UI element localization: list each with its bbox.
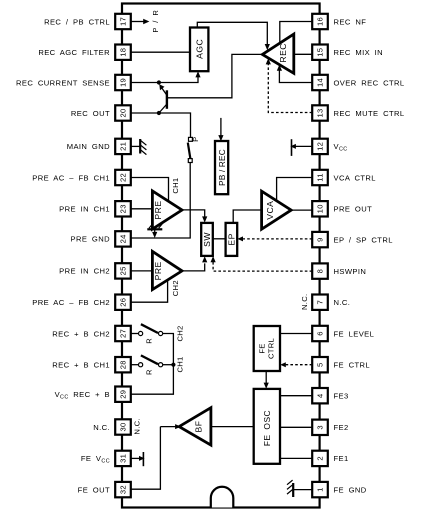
svg-text:REC MUTE CTRL: REC MUTE CTRL	[334, 109, 405, 118]
transistor Q1	[166, 90, 168, 109]
svg-text:R: R	[145, 369, 154, 375]
svg-text:MAIN GND: MAIN GND	[67, 142, 110, 151]
wire pin18 to AGC	[131, 51, 190, 53]
svg-text:REC + B CH1: REC + B CH1	[52, 361, 110, 370]
svg-text:PRE OUT: PRE OUT	[334, 205, 373, 214]
svg-text:FE3: FE3	[334, 392, 349, 401]
node junction switch CH1	[171, 363, 175, 367]
svg-text:10: 10	[316, 204, 325, 213]
svg-text:CH2: CH2	[176, 325, 185, 341]
wire switches to pin29	[131, 334, 173, 395]
svg-text:PRE AC – FB CH2: PRE AC – FB CH2	[32, 298, 110, 307]
wire pin20 REC OUT	[131, 113, 191, 137]
wire pin32 FE OUT to BF output	[131, 427, 160, 490]
svg-text:CTRL: CTRL	[266, 338, 275, 359]
svg-text:PB / REC: PB / REC	[218, 149, 227, 186]
switch P (REC mute)	[189, 137, 193, 141]
svg-text:9: 9	[316, 237, 325, 242]
svg-text:15: 15	[316, 48, 325, 57]
node junction pin20/collector	[157, 111, 161, 115]
svg-text:PRE: PRE	[153, 200, 163, 219]
svg-text:23: 23	[119, 204, 128, 213]
pin labels right	[334, 17, 405, 494]
svg-text:BF: BF	[194, 421, 204, 433]
svg-text:20: 20	[119, 108, 128, 117]
wire REC out to Q1 base	[168, 54, 262, 97]
svg-text:REC / PB CTRL: REC / PB CTRL	[44, 17, 110, 26]
svg-text:13: 13	[316, 108, 325, 117]
svg-text:CH1: CH1	[176, 356, 185, 372]
svg-text:AGC: AGC	[194, 39, 204, 59]
svg-text:OVER REC CTRL: OVER REC CTRL	[334, 78, 405, 87]
wire PRE CH1 output to SW	[182, 210, 205, 219]
power FE Vcc rail (pin31)	[131, 457, 141, 459]
svg-text:FE2: FE2	[334, 423, 349, 432]
block PB/REC	[215, 141, 228, 194]
svg-text:2: 2	[316, 456, 325, 461]
svg-text:16: 16	[316, 17, 325, 26]
svg-text:PRE GND: PRE GND	[71, 235, 111, 244]
wire pin14 OVER REC CTRL	[279, 69, 312, 83]
wire pin5 FE CTRL (dashed)	[284, 364, 312, 366]
svg-text:VCA CTRL: VCA CTRL	[334, 173, 376, 182]
wire pin17 arrow to P/R	[131, 21, 144, 23]
svg-text:31: 31	[119, 454, 128, 463]
pin boxes left (17-32)	[115, 14, 131, 498]
wire switch P to PRE GND line	[131, 163, 190, 239]
block FE CTRL	[254, 326, 280, 371]
pin numbers left	[119, 17, 128, 494]
svg-text:7: 7	[316, 300, 325, 305]
svg-text:14: 14	[316, 78, 325, 87]
wire SW-EP connector	[213, 238, 226, 240]
svg-text:R: R	[145, 338, 154, 344]
wire pin6 FE LEVEL	[280, 333, 312, 335]
switch R CH2 (pin27)	[131, 333, 138, 335]
ground PRE GND (pin24)	[147, 228, 162, 230]
wire PRE CH2 output to SW bottom	[182, 263, 205, 271]
svg-text:6: 6	[316, 331, 325, 336]
svg-text:22: 22	[119, 173, 128, 182]
svg-text:REC CURRENT SENSE: REC CURRENT SENSE	[16, 78, 110, 87]
block AGC U1	[190, 28, 208, 72]
power Vcc rail (pin12)	[294, 145, 312, 147]
wire FE OSC to BF input	[211, 426, 254, 428]
svg-text:N.C.: N.C.	[133, 418, 142, 434]
wire pin3 FE2	[280, 426, 312, 428]
package notch (bottom center)	[211, 487, 234, 508]
op-amp PRE CH2	[152, 251, 182, 289]
svg-text:21: 21	[119, 142, 128, 151]
svg-text:17: 17	[119, 17, 128, 26]
svg-text:19: 19	[119, 78, 128, 87]
svg-text:5: 5	[316, 362, 325, 367]
block EP	[226, 223, 238, 256]
ground FE GND (pin1)	[293, 489, 312, 491]
svg-text:PRE AC – FB CH1: PRE AC – FB CH1	[32, 173, 110, 182]
svg-text:PRE: PRE	[153, 261, 163, 280]
svg-text:REC OUT: REC OUT	[71, 109, 110, 118]
svg-text:28: 28	[119, 360, 128, 369]
svg-text:FE: FE	[257, 343, 266, 353]
svg-text:PRE IN CH1: PRE IN CH1	[59, 205, 110, 214]
IC package outline	[122, 4, 320, 508]
svg-text:3: 3	[316, 425, 325, 430]
wire FE CTRL to FE OSC arrow	[265, 371, 267, 385]
pin numbers right	[316, 17, 325, 492]
svg-text:24: 24	[119, 234, 128, 243]
svg-text:CH2: CH2	[171, 280, 180, 296]
ground MAIN GND (pin21)	[131, 145, 140, 147]
svg-text:N.C.: N.C.	[334, 298, 351, 307]
op-amp PRE CH1	[152, 191, 182, 229]
svg-text:REC AGC FILTER: REC AGC FILTER	[38, 48, 110, 57]
switch R CH1 (pin28)	[131, 364, 138, 366]
op-amp BF	[179, 408, 211, 445]
wire pin13 REC MUTE CTRL (dashed)	[268, 62, 312, 112]
wire EP top to VCA input	[233, 210, 261, 223]
svg-text:SW: SW	[202, 232, 212, 247]
node junction pin19/emitter	[157, 80, 161, 84]
wire input arrow into PB/REC	[220, 118, 222, 138]
svg-text:8: 8	[316, 269, 325, 274]
svg-text:FE GND: FE GND	[334, 485, 367, 494]
wire pin23 to PRE CH1 input	[131, 208, 151, 210]
svg-text:30: 30	[119, 422, 128, 431]
wire pin4 FE3	[280, 395, 312, 397]
op-amp VCA	[262, 191, 292, 229]
svg-text:VCA: VCA	[265, 201, 275, 220]
svg-text:REC NF: REC NF	[334, 17, 367, 26]
wire pin8 HSWPIN (dashed) to SW bottom	[213, 260, 312, 271]
wire pin16 REC NF to REC amp	[280, 22, 312, 44]
wire AGC top to REC amp control	[197, 22, 267, 44]
svg-text:27: 27	[119, 329, 128, 338]
svg-text:N.C.: N.C.	[93, 423, 110, 432]
wire pin9 EP/SP CTRL (dashed)	[242, 238, 313, 240]
pin boxes right (16-1)	[312, 14, 328, 498]
wire pin22 to PRE CH1 feedback	[131, 178, 169, 202]
svg-text:FE CTRL: FE CTRL	[334, 361, 371, 370]
pin labels left	[16, 17, 110, 494]
wire pin15 REC MIX IN	[294, 53, 312, 55]
wire pin19 to AGC bottom	[131, 74, 198, 82]
svg-text:P / R: P / R	[151, 10, 160, 33]
svg-text:FE LEVEL: FE LEVEL	[334, 329, 375, 338]
svg-text:REC: REC	[278, 43, 288, 63]
svg-text:REC + B CH2: REC + B CH2	[52, 329, 110, 338]
block FE OSC	[254, 389, 280, 464]
svg-text:P: P	[191, 137, 200, 142]
svg-text:32: 32	[119, 485, 128, 494]
svg-text:29: 29	[119, 390, 128, 399]
wire pin2 FE1	[280, 457, 312, 459]
block SW	[201, 223, 213, 256]
svg-text:FE OSC: FE OSC	[262, 410, 272, 446]
svg-text:N.C.: N.C.	[300, 294, 309, 310]
svg-text:CH1: CH1	[171, 178, 180, 194]
svg-text:11: 11	[316, 173, 325, 181]
svg-text:18: 18	[119, 48, 128, 57]
svg-text:1: 1	[316, 487, 325, 492]
wire pin25 to PRE CH2 input	[131, 270, 151, 272]
wire VCA output to pin10	[291, 209, 312, 211]
svg-text:FE OUT: FE OUT	[78, 485, 110, 494]
op-amp REC	[262, 34, 293, 73]
svg-text:EP / SP CTRL: EP / SP CTRL	[334, 235, 393, 244]
svg-text:HSWPIN: HSWPIN	[334, 267, 367, 276]
svg-text:FE1: FE1	[334, 454, 349, 463]
wire pin26 to PRE CH2 feedback	[131, 280, 168, 302]
svg-text:REC MIX IN: REC MIX IN	[334, 48, 384, 57]
svg-text:4: 4	[316, 393, 325, 398]
wire pin11 VCA CTRL	[277, 178, 313, 201]
svg-text:12: 12	[316, 142, 325, 151]
svg-text:PRE IN CH2: PRE IN CH2	[59, 267, 110, 276]
svg-text:26: 26	[119, 298, 128, 307]
svg-text:25: 25	[119, 266, 128, 275]
svg-text:EP: EP	[227, 233, 237, 245]
